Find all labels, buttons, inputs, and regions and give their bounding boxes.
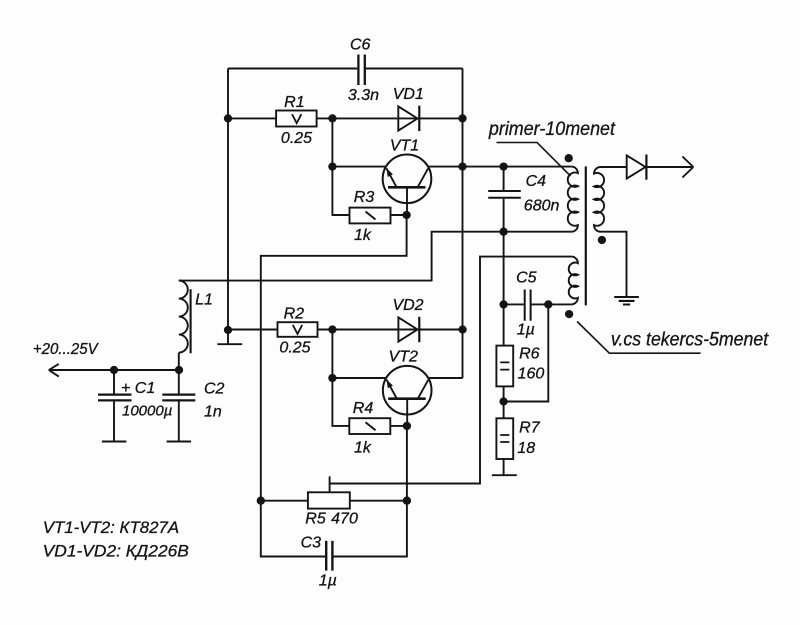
svg-text:C5: C5	[516, 270, 537, 287]
svg-text:R1: R1	[284, 94, 304, 111]
svg-text:160: 160	[518, 366, 545, 383]
svg-text:VT1: VT1	[390, 138, 419, 155]
svg-text:R6: R6	[519, 346, 540, 363]
svg-text:10000µ: 10000µ	[122, 403, 172, 420]
svg-text:R7: R7	[519, 420, 541, 437]
svg-text:R2: R2	[284, 306, 305, 323]
svg-text:C2: C2	[204, 381, 225, 398]
svg-text:470: 470	[331, 511, 358, 528]
svg-text:L1: L1	[195, 292, 213, 309]
svg-text:18: 18	[517, 440, 535, 457]
svg-text:1µ: 1µ	[319, 573, 337, 590]
svg-text:+20...25V: +20...25V	[33, 341, 99, 358]
svg-text:VD2: VD2	[392, 297, 423, 314]
svg-text:VD1: VD1	[393, 86, 424, 103]
svg-text:0.25: 0.25	[279, 339, 310, 356]
svg-text:VT2: VT2	[389, 349, 418, 366]
svg-text:1n: 1n	[204, 404, 222, 421]
svg-text:R5: R5	[305, 511, 326, 528]
svg-text:3.3n: 3.3n	[348, 87, 379, 104]
svg-text:C3: C3	[301, 535, 322, 552]
svg-text:C4: C4	[526, 173, 547, 190]
svg-text:v.cs tekercs-5menet: v.cs tekercs-5menet	[611, 330, 769, 351]
svg-text:1µ: 1µ	[517, 322, 535, 339]
svg-text:0.25: 0.25	[281, 130, 312, 147]
svg-text:C6: C6	[350, 37, 371, 54]
svg-text:VT1-VT2: КТ827А: VT1-VT2: КТ827А	[43, 518, 180, 537]
svg-text:R3: R3	[354, 189, 375, 206]
svg-text:1k: 1k	[354, 440, 372, 457]
svg-text:VD1-VD2: КД226В: VD1-VD2: КД226В	[43, 542, 189, 561]
svg-text:680n: 680n	[524, 198, 560, 215]
svg-text:primer-10menet: primer-10menet	[488, 119, 616, 140]
svg-text:R4: R4	[353, 400, 374, 417]
svg-text:1k: 1k	[354, 227, 372, 244]
svg-text:+ C1: + C1	[121, 380, 155, 397]
